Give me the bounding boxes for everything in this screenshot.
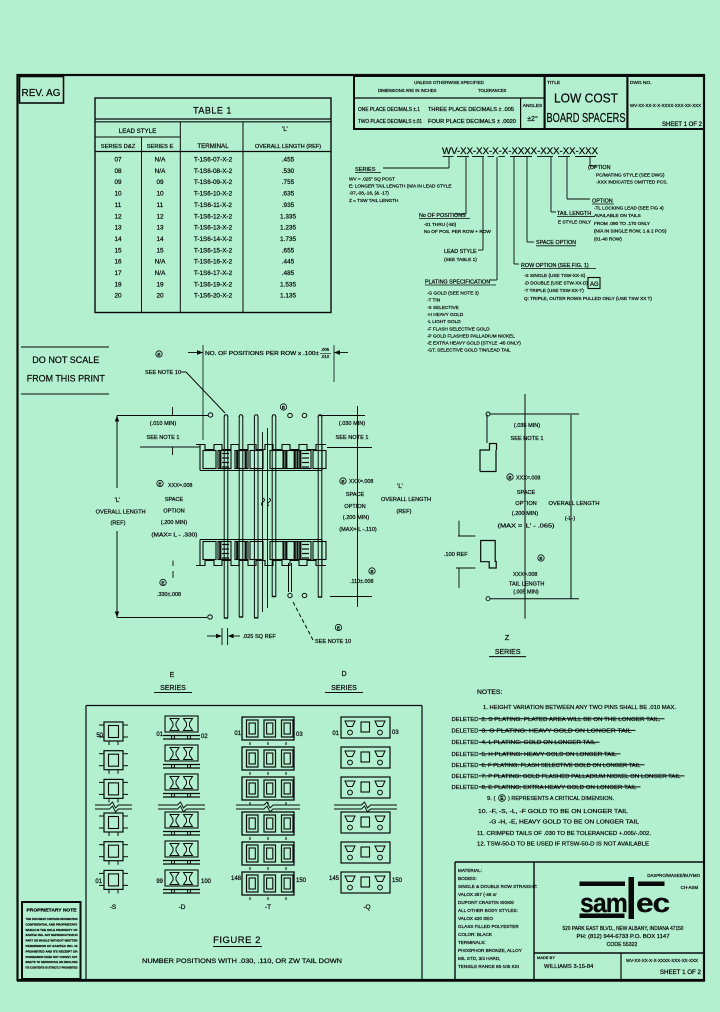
svg-text:SERIES E: SERIES E [147,144,174,150]
svg-text:99: 99 [156,879,163,885]
svg-text:-TL LOCKING LEAD (SEE FIG 4): -TL LOCKING LEAD (SEE FIG 4) [594,206,664,211]
svg-text:6. F PLATING: FLASH SELECTIVE: 6. F PLATING: FLASH SELECTIVE GOLD ON LO… [482,763,642,769]
svg-text:LEAD STYLE: LEAD STYLE [444,249,477,255]
svg-text:FOUR PLACE DECIMALS ± .0020: FOUR PLACE DECIMALS ± .0020 [428,119,516,125]
svg-text:T-1S6-08-X-2: T-1S6-08-X-2 [194,168,233,175]
svg-text:T-1S6-16-X-2: T-1S6-16-X-2 [194,259,233,266]
svg-text:(.030 MIN): (.030 MIN) [339,421,366,427]
svg-text:01: 01 [95,879,102,885]
svg-text:12. TSW-50-D TO BE USED IF RTS: 12. TSW-50-D TO BE USED IF RTSW-50-D IS … [477,842,649,848]
svg-text:T-1S6-14-X-2: T-1S6-14-X-2 [194,236,233,243]
svg-text:15: 15 [114,247,122,254]
svg-text:01: 01 [234,731,241,737]
svg-text:08: 08 [114,168,122,175]
svg-text:N/A: N/A [155,157,166,164]
svg-text:TAIL LENGTH: TAIL LENGTH [509,582,544,588]
svg-text:PROPRIETARY NOTE: PROPRIETARY NOTE [27,908,77,913]
svg-text:ONE PLACE DECIMALS ±.1: ONE PLACE DECIMALS ±.1 [358,107,420,113]
svg-text:(MAX= L -.110): (MAX= L -.110) [339,527,377,533]
svg-text:CONFIDENTIAL AND PROPRIETARY: CONFIDENTIAL AND PROPRIETARY [26,922,79,926]
svg-text:XXX=.008: XXX=.008 [168,483,192,489]
svg-text:SPACE: SPACE [346,492,365,498]
svg-text:MATERIAL:: MATERIAL: [458,868,482,873]
svg-text:TITLE: TITLE [547,80,560,86]
svg-text:SPACE: SPACE [517,490,536,496]
svg-text:PROHIBITED AND ITS RECEIPT OR: PROHIBITED AND ITS RECEIPT OR [26,949,79,953]
svg-text:Z: Z [505,633,510,642]
svg-text:) REPRESENTS A CRITICAL DIMENS: ) REPRESENTS A CRITICAL DIMENSION. [508,796,614,802]
svg-text:SPACE OPTION: SPACE OPTION [536,240,576,246]
svg-text:T-1S6-10-X-2: T-1S6-10-X-2 [194,191,233,198]
svg-text:12: 12 [156,213,164,220]
svg-text:03: 03 [392,730,399,736]
svg-text:.005: .005 [321,347,330,352]
svg-text:AVAILABLE ON TAILS: AVAILABLE ON TAILS [594,213,641,218]
svg-text:BODIES:: BODIES: [458,876,477,881]
svg-text:VALOX 420 SEO: VALOX 420 SEO [458,916,493,921]
svg-text:14: 14 [114,236,122,243]
svg-text:N/A: N/A [155,270,166,277]
svg-text:N/A: N/A [155,259,166,266]
svg-text:sam: sam [580,888,627,918]
svg-text:SEE NOTE 1: SEE NOTE 1 [147,435,180,441]
svg-text:SEE NOTE 1: SEE NOTE 1 [511,436,544,442]
svg-text:FROM .090 TO .170 ONLY: FROM .090 TO .170 ONLY [594,221,651,226]
svg-text:SERIES D&Z: SERIES D&Z [101,144,136,150]
svg-text:-E EXTRA HEAVY GOLD (STYLE -4: -E EXTRA HEAVY GOLD (STYLE -45 ONLY) [427,341,521,346]
svg-text:09: 09 [114,179,122,186]
svg-text:100: 100 [201,879,212,885]
svg-text:BOARD SPACERS: BOARD SPACERS [547,111,626,125]
svg-text:(REF): (REF) [397,509,412,515]
svg-text:-XXX INDICATES OMITTED PCS.: -XXX INDICATES OMITTED PCS. [596,180,668,185]
svg-text:T-1S6-12-X-2: T-1S6-12-X-2 [194,213,233,220]
svg-text:DELETED: DELETED [452,728,479,734]
svg-text:LOW COST: LOW COST [554,92,618,106]
svg-text:(MAX= L - .330): (MAX= L - .330) [151,533,197,539]
svg-text:TERMINAL: TERMINAL [197,143,229,150]
svg-text:17: 17 [114,270,122,277]
svg-text:19: 19 [114,281,122,288]
svg-text:WHICH IS THE SOLE PROPERTY OF: WHICH IS THE SOLE PROPERTY OF [26,928,78,932]
svg-text:DELETED: DELETED [452,752,479,758]
svg-text:XXX=.008: XXX=.008 [349,479,373,485]
svg-text:THREE PLACE DECIMALS ± .005: THREE PLACE DECIMALS ± .005 [428,107,514,113]
svg-text:150: 150 [296,878,307,884]
svg-text:OVERALL LENGTH: OVERALL LENGTH [549,501,600,507]
svg-text:PHOSPHOR BRONZE, ALLOY: PHOSPHOR BRONZE, ALLOY [458,948,522,953]
svg-text:OVERALL LENGTH (REF): OVERALL LENGTH (REF) [255,144,321,150]
svg-text:-H HEAVY GOLD: -H HEAVY GOLD [427,312,464,317]
svg-text:-S SINGLE (USE TSW-XX-S): -S SINGLE (USE TSW-XX-S) [524,273,586,278]
svg-text:POSSESSION DOES NOT CONVEY ANY: POSSESSION DOES NOT CONVEY ANY [26,955,79,959]
svg-text:E: E [500,796,504,802]
svg-text:OPTION: OPTION [344,504,365,510]
svg-text:DELETED: DELETED [452,717,479,723]
svg-text:3. G PLATING: HEAVY GOLD ON L: 3. G PLATING: HEAVY GOLD ON LONGER TAIL [482,728,633,734]
svg-text:No OF POS. PER ROW + ROW: No OF POS. PER ROW + ROW [424,229,491,234]
svg-text:FIGURE 2: FIGURE 2 [213,935,261,946]
svg-text:-Q: -Q [363,904,370,911]
svg-text:DELETED: DELETED [452,740,479,746]
svg-text:1.335: 1.335 [280,213,296,220]
svg-text:N/A: N/A [155,168,166,175]
svg-text:7. P PLATING: GOLD FLASHED PA: 7. P PLATING: GOLD FLASHED PALLADIUM NIC… [482,774,682,780]
svg-text:-D DOUBLE (USE STW-XX-D): -D DOUBLE (USE STW-XX-D) [524,281,588,286]
svg-text:01: 01 [332,731,339,737]
svg-text:MIL STD, 3/4 HARD,: MIL STD, 3/4 HARD, [458,956,500,961]
svg-text:VALOX 357 (-46 or: VALOX 357 (-46 or [458,892,497,897]
svg-text:TABLE 1: TABLE 1 [193,106,232,116]
svg-text:WV = .025" SQ POST: WV = .025" SQ POST [349,177,395,182]
svg-text:14: 14 [156,236,164,243]
svg-text:OVERALL LENGTH: OVERALL LENGTH [381,497,431,503]
svg-text:(.035 MIN): (.035 MIN) [514,423,541,429]
svg-text:.330±.008: .330±.008 [157,592,181,598]
svg-text:SHEET 1 OF 2: SHEET 1 OF 2 [662,122,703,128]
svg-text:DO NOT SCALE: DO NOT SCALE [32,355,99,366]
svg-text:MADE BY: MADE BY [537,955,555,960]
svg-text:-S SELECTIVE: -S SELECTIVE [427,305,459,310]
svg-text:1.135: 1.135 [280,293,296,300]
svg-text:(01-40 ROW): (01-40 ROW) [594,236,622,241]
svg-text:.635: .635 [282,191,295,198]
svg-text:-P GOLD FLASHED PALLADIUM NIC: -P GOLD FLASHED PALLADIUM NICKEL [427,333,515,338]
svg-text:(MAX = 'L' - .065): (MAX = 'L' - .065) [498,524,555,530]
svg-text:.445: .445 [282,259,295,266]
svg-text:FROM THIS PRINT: FROM THIS PRINT [27,374,105,385]
svg-text:520 PARK EAST BLVD., NEW ALBA: 520 PARK EAST BLVD., NEW ALBANY, INDIANA… [563,926,684,932]
svg-text:NOTES:: NOTES: [477,689,502,696]
svg-text:PC/MATING STYLE (SEE DWG): PC/MATING STYLE (SEE DWG) [596,173,665,178]
svg-text:SINGLE & DOUBLE ROW STRAIGHT:: SINGLE & DOUBLE ROW STRAIGHT: [458,884,537,889]
svg-text:UNLESS OTHERWISE SPECIFIED: UNLESS OTHERWISE SPECIFIED [414,80,484,85]
svg-text:PART OR WHOLE WITHOUT WRITTEN: PART OR WHOLE WITHOUT WRITTEN [26,939,79,943]
svg-text:(.200 MIN): (.200 MIN) [343,515,370,521]
svg-text:SERIES: SERIES [331,685,357,692]
svg-text:10: 10 [156,191,164,198]
svg-text:SPACE: SPACE [165,497,184,503]
svg-text:1.535: 1.535 [280,281,296,288]
svg-text:Z = TSW TAIL LENGTH: Z = TSW TAIL LENGTH [349,198,398,203]
svg-text:TOLERANCES: TOLERANCES [478,88,507,93]
svg-text:REV. AG: REV. AG [22,88,61,99]
svg-text:SHEET 1 OF 2: SHEET 1 OF 2 [660,969,702,976]
svg-text:.755: .755 [282,179,295,186]
svg-text:DELETED: DELETED [452,763,479,769]
svg-text:.655: .655 [282,247,295,254]
svg-text:DUPONT CRASTIN SK605: DUPONT CRASTIN SK605 [458,900,514,905]
svg-text:.025 SQ REF: .025 SQ REF [243,634,277,640]
svg-text:-G -H, -E, HEAVY GOLD TO BE O: -G -H, -E, HEAVY GOLD TO BE ON LONGER TA… [489,820,640,826]
svg-text:.935: .935 [282,202,295,209]
svg-text:XXX=.008: XXX=.008 [513,572,537,578]
svg-text:4. L PLATING: GOLD ON LONGER: 4. L PLATING: GOLD ON LONGER TAIL [482,740,597,746]
svg-text:(-L-): (-L-) [565,516,576,522]
svg-text:-D: -D [179,904,186,911]
svg-text:20: 20 [156,293,164,300]
svg-text:9. (: 9. ( [487,796,495,802]
svg-text:16: 16 [114,259,122,266]
svg-text:±2°: ±2° [527,115,538,123]
svg-text:50: 50 [96,733,103,739]
svg-text:8. E PLATING: EXTRA HEAVY GOL: 8. E PLATING: EXTRA HEAVY GOLD ON LONGER… [482,785,638,791]
svg-text:150: 150 [392,878,403,884]
svg-text:.530: .530 [282,168,295,175]
svg-text:T-1S6-20-X-2: T-1S6-20-X-2 [194,293,233,300]
svg-text:-T: -T [265,904,271,911]
svg-text:02: 02 [201,734,208,740]
svg-text:THIS DOCUMENT CONTAINS INFORMA: THIS DOCUMENT CONTAINS INFORMATION [26,917,79,921]
svg-text:-G GOLD (SEE NOTE 3): -G GOLD (SEE NOTE 3) [427,291,479,296]
svg-text:11. CRIMPED TAILS OF .030 TO B: 11. CRIMPED TAILS OF .030 TO BE TOLERANC… [477,831,651,837]
svg-text:1. HEIGHT VARIATION BETWEEN AN: 1. HEIGHT VARIATION BETWEEN ANY TWO PINS… [483,705,676,711]
svg-text:-T TIN: -T TIN [427,298,440,303]
svg-text:DELETED: DELETED [452,774,479,780]
svg-text:(.010 MIN): (.010 MIN) [150,421,177,427]
svg-text:11: 11 [157,202,164,209]
svg-text:E STYLE ONLY: E STYLE ONLY [558,220,592,225]
svg-text:T-1S6-15-X-2: T-1S6-15-X-2 [194,247,233,254]
svg-text:NO. OF POSITIONS PER ROW x .10: NO. OF POSITIONS PER ROW x .100± [205,351,319,357]
svg-text:OPTION: OPTION [515,501,536,507]
svg-text:T-1S6-07-X-2: T-1S6-07-X-2 [194,157,233,164]
svg-text:RIGHTS TO REPRODUCE OR DISCLOS: RIGHTS TO REPRODUCE OR DISCLOSE [26,960,78,964]
svg-text:'L': 'L' [115,498,121,504]
svg-text:-GT, SELECTIVE GOLD TIN/LEAD T: -GT, SELECTIVE GOLD TIN/LEAD TAIL [427,348,511,353]
svg-text:.485: .485 [282,270,295,277]
svg-text:(REF): (REF) [111,521,126,527]
svg-text:09: 09 [156,179,164,186]
svg-text:SERIES: SERIES [495,649,521,656]
svg-text:-F FLASH SELECTIVE GOLD: -F FLASH SELECTIVE GOLD [427,326,490,331]
svg-text:5. H PLATING: HEAVY GOLD ON L: 5. H PLATING: HEAVY GOLD ON LONGER TAIL [482,752,618,758]
svg-text:1.735: 1.735 [280,236,296,243]
svg-text:2. S PLATING: PLATED AREA WIL: 2. S PLATING: PLATED AREA WILL BE ON THE… [482,717,661,723]
svg-text:PERMISSION OF SAMTEC INC. IS: PERMISSION OF SAMTEC INC. IS [26,944,78,948]
svg-text:D: D [341,671,346,678]
svg-text:-07,-08,-16, (& -17): -07,-08,-16, (& -17) [349,191,389,196]
svg-text:T-1S6-17-X-2: T-1S6-17-X-2 [194,270,233,277]
svg-text:12: 12 [114,213,122,220]
svg-text:ALL OTHER BODY STYLES:: ALL OTHER BODY STYLES: [458,908,518,913]
svg-text:E: LONGER TAIL LENGTH (N/A IN: E: LONGER TAIL LENGTH (N/A IN LEAD STYLE [349,184,452,189]
svg-text:OPTION: OPTION [163,508,184,514]
svg-text:15: 15 [156,247,164,254]
svg-text:SAMTEC INC. ANY REPRODUCTION I: SAMTEC INC. ANY REPRODUCTION IN [26,933,79,937]
svg-text:(.200 MIN): (.200 MIN) [512,511,539,517]
svg-text:ITS CONTENTS IS STRICTLY PROHI: ITS CONTENTS IS STRICTLY PROHIBITED [26,966,79,970]
svg-text:DELETED: DELETED [452,785,479,791]
svg-text:E: E [170,672,175,679]
svg-text:OVERALL LENGTH: OVERALL LENGTH [96,510,146,516]
svg-text:T-1S6-13-X-2: T-1S6-13-X-2 [194,225,233,232]
svg-text:GLASS FILLED POLYESTER: GLASS FILLED POLYESTER [458,924,519,929]
svg-text:-T TRIPLE (USE TSW-XX-T): -T TRIPLE (USE TSW-XX-T) [524,288,584,293]
svg-text:11: 11 [115,202,122,209]
svg-text:LEAD STYLE: LEAD STYLE [119,128,157,135]
svg-text:AG: AG [590,282,599,288]
svg-text:ANGLES: ANGLES [523,103,542,109]
svg-text:T-1S6-09-X-2: T-1S6-09-X-2 [194,179,233,186]
svg-text:SEE NOTE 10: SEE NOTE 10 [315,639,351,645]
svg-text:13: 13 [114,225,122,232]
svg-text:DIMENSIONS ARE IN INCHES: DIMENSIONS ARE IN INCHES [378,88,437,93]
svg-text:(.005 MIN): (.005 MIN) [513,590,539,596]
svg-text:TENSILE RANGE 85-105 KSI: TENSILE RANGE 85-105 KSI [458,964,519,969]
svg-text:WILLIAMS 3-15-84: WILLIAMS 3-15-84 [544,964,594,970]
svg-text:07: 07 [114,157,122,164]
svg-text:T-1S6-11-X-2: T-1S6-11-X-2 [194,202,232,209]
svg-text:(.200 MIN): (.200 MIN) [161,520,188,526]
svg-text:T-1S6-19-X-2: T-1S6-19-X-2 [194,281,233,288]
svg-text:10. -F, -S, -L, -F GOLD TO BE: 10. -F, -S, -L, -F GOLD TO BE ON LONGER … [478,809,629,815]
svg-text:13: 13 [156,225,164,232]
svg-text:1.235: 1.235 [280,225,296,232]
svg-text:(SEE TABLE 1): (SEE TABLE 1) [444,257,477,263]
svg-text:SEE NOTE 10: SEE NOTE 10 [145,370,181,376]
svg-text:WV-XX-XX-X-X-XXXX-XXX-XX-XXX: WV-XX-XX-X-X-XXXX-XXX-XX-XXX [442,146,598,156]
svg-text:.100 REF: .100 REF [444,552,468,558]
svg-text:SERIES: SERIES [160,685,186,692]
svg-text:01: 01 [156,732,163,738]
svg-text:20: 20 [114,293,122,300]
svg-text:.110±.008: .110±.008 [350,579,374,585]
svg-text:03: 03 [296,732,303,738]
svg-text:-L LIGHT GOLD: -L LIGHT GOLD [427,319,461,324]
svg-text:148: 148 [231,876,242,882]
svg-text:SEE NOTE 1: SEE NOTE 1 [336,435,369,441]
svg-text:10: 10 [114,191,122,198]
svg-text:(OPTION: (OPTION [588,165,611,171]
svg-text:-01 THRU (-50): -01 THRU (-50) [424,222,457,227]
svg-text:145: 145 [329,876,340,882]
svg-text:WV-XX-XX-X-X-XXXX-XXX-XX-XXX: WV-XX-XX-X-X-XXXX-XXX-XX-XXX [626,958,698,963]
svg-text:-S: -S [110,904,117,911]
svg-text:(N/A IN SINGLE ROW, 1 & 2 POS): (N/A IN SINGLE ROW, 1 & 2 POS) [594,229,667,234]
svg-text:'L': 'L' [397,484,403,490]
svg-text:.455: .455 [282,157,295,164]
svg-text:XXX=.008: XXX=.008 [516,476,540,482]
svg-text:DASPRO/WASEE/BUYMO: DASPRO/WASEE/BUYMO [647,873,700,878]
svg-text:'L': 'L' [282,127,288,133]
svg-text:Q: TRIPLE, OUTER ROWS PULLED O: Q: TRIPLE, OUTER ROWS PULLED ONLY (USE T… [524,296,652,301]
svg-text:PH: (812) 944-6733 P.O. BOX: PH: (812) 944-6733 P.O. BOX 1147 [577,934,670,940]
svg-text:CODE 55322: CODE 55322 [607,942,638,948]
svg-text:TWO PLACE DECIMALS ±.01: TWO PLACE DECIMALS ±.01 [358,119,422,125]
svg-text:COLOR: BLACK: COLOR: BLACK [458,932,493,937]
svg-text:WV-XX-XX-X-X-XXXX-XXX-XX-XXX: WV-XX-XX-X-X-XXXX-XXX-XX-XXX [630,103,701,108]
svg-text:19: 19 [156,281,164,288]
svg-text:.010: .010 [321,354,330,359]
svg-text:NUMBER POSITIONS WITH .030, .1: NUMBER POSITIONS WITH .030, .110, OR ZW … [142,958,342,965]
svg-text:DWG NO.: DWG NO. [630,80,652,86]
svg-text:ec: ec [636,888,670,918]
svg-text:TERMINALS:: TERMINALS: [458,940,486,945]
svg-text:CH-ASM: CH-ASM [681,885,699,890]
